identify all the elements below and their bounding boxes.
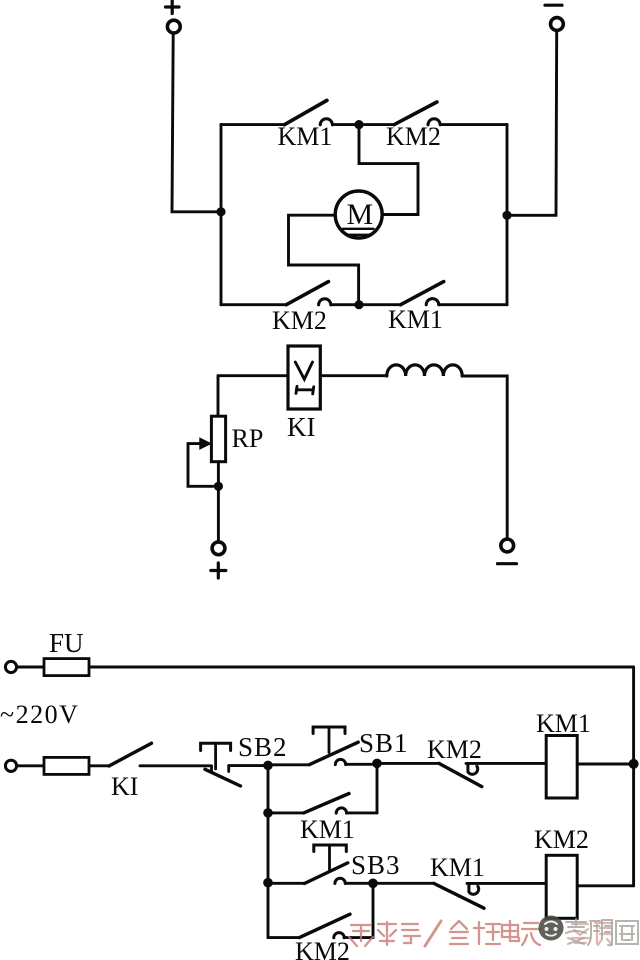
wire from field winding to right terminal <box>462 376 507 539</box>
svg-text:KM2: KM2 <box>427 735 482 764</box>
minus terminal (- supply, top right) <box>545 5 563 30</box>
plus terminal (field supply, bottom left) <box>211 542 226 578</box>
svg-text:FU: FU <box>49 628 84 658</box>
wire L2 to fuse <box>17 764 44 767</box>
wire left rail down to RP <box>217 376 220 417</box>
coil KM2 (contactor coil) <box>546 855 577 918</box>
watermark red text (头条号 / 全球电气资源) <box>349 921 540 946</box>
watermark ghost red (资源) <box>572 923 612 945</box>
wire top feeder to right rail <box>89 666 634 669</box>
svg-text:KM2: KM2 <box>534 825 589 854</box>
contact KI (relay NO contact) <box>109 743 212 766</box>
node (RP wiper junction) <box>214 482 223 491</box>
svg-text:SB2: SB2 <box>238 732 288 762</box>
svg-text:KM1: KM1 <box>300 815 355 844</box>
motor M1 (DC motor) <box>335 191 382 238</box>
wire node A down to node C <box>267 770 270 813</box>
wire from + terminal down to left node <box>172 33 220 212</box>
wire node A to SB1 <box>273 763 310 766</box>
wire top rail centre segment <box>364 123 395 126</box>
contact KM1 (top, NO) <box>284 100 354 125</box>
contact KM2 (bottom, NO) <box>286 282 354 305</box>
node (left rail junction) <box>216 207 225 216</box>
inductor L1 (motor field winding) <box>387 365 462 376</box>
svg-text:RP: RP <box>232 424 264 453</box>
svg-text:KM1: KM1 <box>278 122 333 151</box>
wire L1 to fuse <box>17 666 44 669</box>
svg-text:KM1: KM1 <box>388 305 443 334</box>
watermark logo (circular stamp) <box>539 916 564 941</box>
svg-text:KI: KI <box>287 412 316 442</box>
wire KM2 coil to right rail <box>577 884 633 887</box>
wire top rail left segment <box>221 123 284 126</box>
svg-text:KM2: KM2 <box>295 937 350 960</box>
potentiometer RP (rheostat) <box>188 416 226 462</box>
minus terminal (field supply, bottom right) <box>498 539 517 564</box>
wire holding branch up to node B <box>376 768 379 813</box>
contact KM2 (top, NO) <box>394 102 507 125</box>
coil KM1 (contactor coil) <box>546 736 577 799</box>
terminal L2 (AC line, lower) <box>5 760 16 771</box>
svg-text:~220V: ~220V <box>0 700 79 729</box>
left rail of bridge <box>220 125 223 305</box>
right rail (control circuit) <box>632 667 635 886</box>
watermark grey outline text (变频圈) <box>566 919 638 945</box>
wire field circuit top left <box>218 374 288 377</box>
pushbutton SB1 (NO start forward) <box>309 727 372 765</box>
node A (after SB2) <box>263 761 273 771</box>
plus terminal (+ supply, top left) <box>166 1 181 33</box>
wire fuse to KI contact <box>89 764 109 767</box>
wire bottom rail centre segment <box>364 303 401 306</box>
contact KM1 (NO holding contact) <box>273 794 378 814</box>
wire from motor left terminal down-left to bottom node <box>289 215 359 300</box>
node B (after SB1) <box>372 759 382 769</box>
wire bottom rail left segment <box>221 303 286 306</box>
wire from - terminal down to right node <box>509 31 557 216</box>
wire node D to SB3 <box>273 882 305 885</box>
fuse FU (lower) <box>44 757 89 774</box>
wire node down to + terminal <box>217 491 220 542</box>
wire wiper tie-down to lower node <box>188 444 213 487</box>
wire KM2 holding branch up to node E <box>372 888 375 938</box>
pushbutton SB3 (NO start reverse) <box>304 845 368 884</box>
svg-text:SB3: SB3 <box>351 850 401 880</box>
terminal L1 (AC line, upper) <box>5 661 16 672</box>
wire RP bottom to node <box>217 462 220 482</box>
svg-text:KM1: KM1 <box>536 709 591 738</box>
fuse FU (upper) <box>44 659 89 676</box>
node C (KM1 holding branch) <box>263 808 273 818</box>
wire node E to KM1 interlock <box>378 882 434 885</box>
contact KM2 (NO holding contact) <box>268 914 373 938</box>
node E (after SB3) <box>368 879 378 889</box>
svg-text:KM2: KM2 <box>272 306 327 335</box>
node D (SB3 branch) <box>263 878 273 888</box>
node (top centre junction) <box>354 120 363 129</box>
pushbutton SB2 (NC stop button) <box>201 743 264 786</box>
wire node C down to node D <box>267 818 270 883</box>
wire node D down to KM2 holding branch <box>267 887 270 937</box>
svg-text:KM2: KM2 <box>386 122 441 151</box>
svg-text:KM1: KM1 <box>430 853 485 882</box>
contact KM1 (bottom, NO) <box>401 282 507 305</box>
node (bottom centre junction) <box>354 300 363 309</box>
node (right rail junction) <box>502 211 511 220</box>
svg-text:SB1: SB1 <box>359 728 409 758</box>
wire KM1 coil to right rail <box>577 763 633 766</box>
wire from top node down-right to motor right terminal <box>359 129 418 215</box>
right rail of bridge <box>506 125 509 305</box>
wire node B to KM2 interlock <box>382 762 440 765</box>
wire from KI to field winding <box>320 374 387 377</box>
svg-text:M: M <box>347 198 374 231</box>
contact KM1 (NC interlock, row 2) <box>434 883 546 908</box>
contact KM2 (NC interlock, row 1) <box>439 763 546 786</box>
svg-text:KI: KI <box>111 772 138 801</box>
relay KI (overcurrent relay coil) <box>288 346 320 409</box>
node (right rail junction) <box>629 759 639 769</box>
